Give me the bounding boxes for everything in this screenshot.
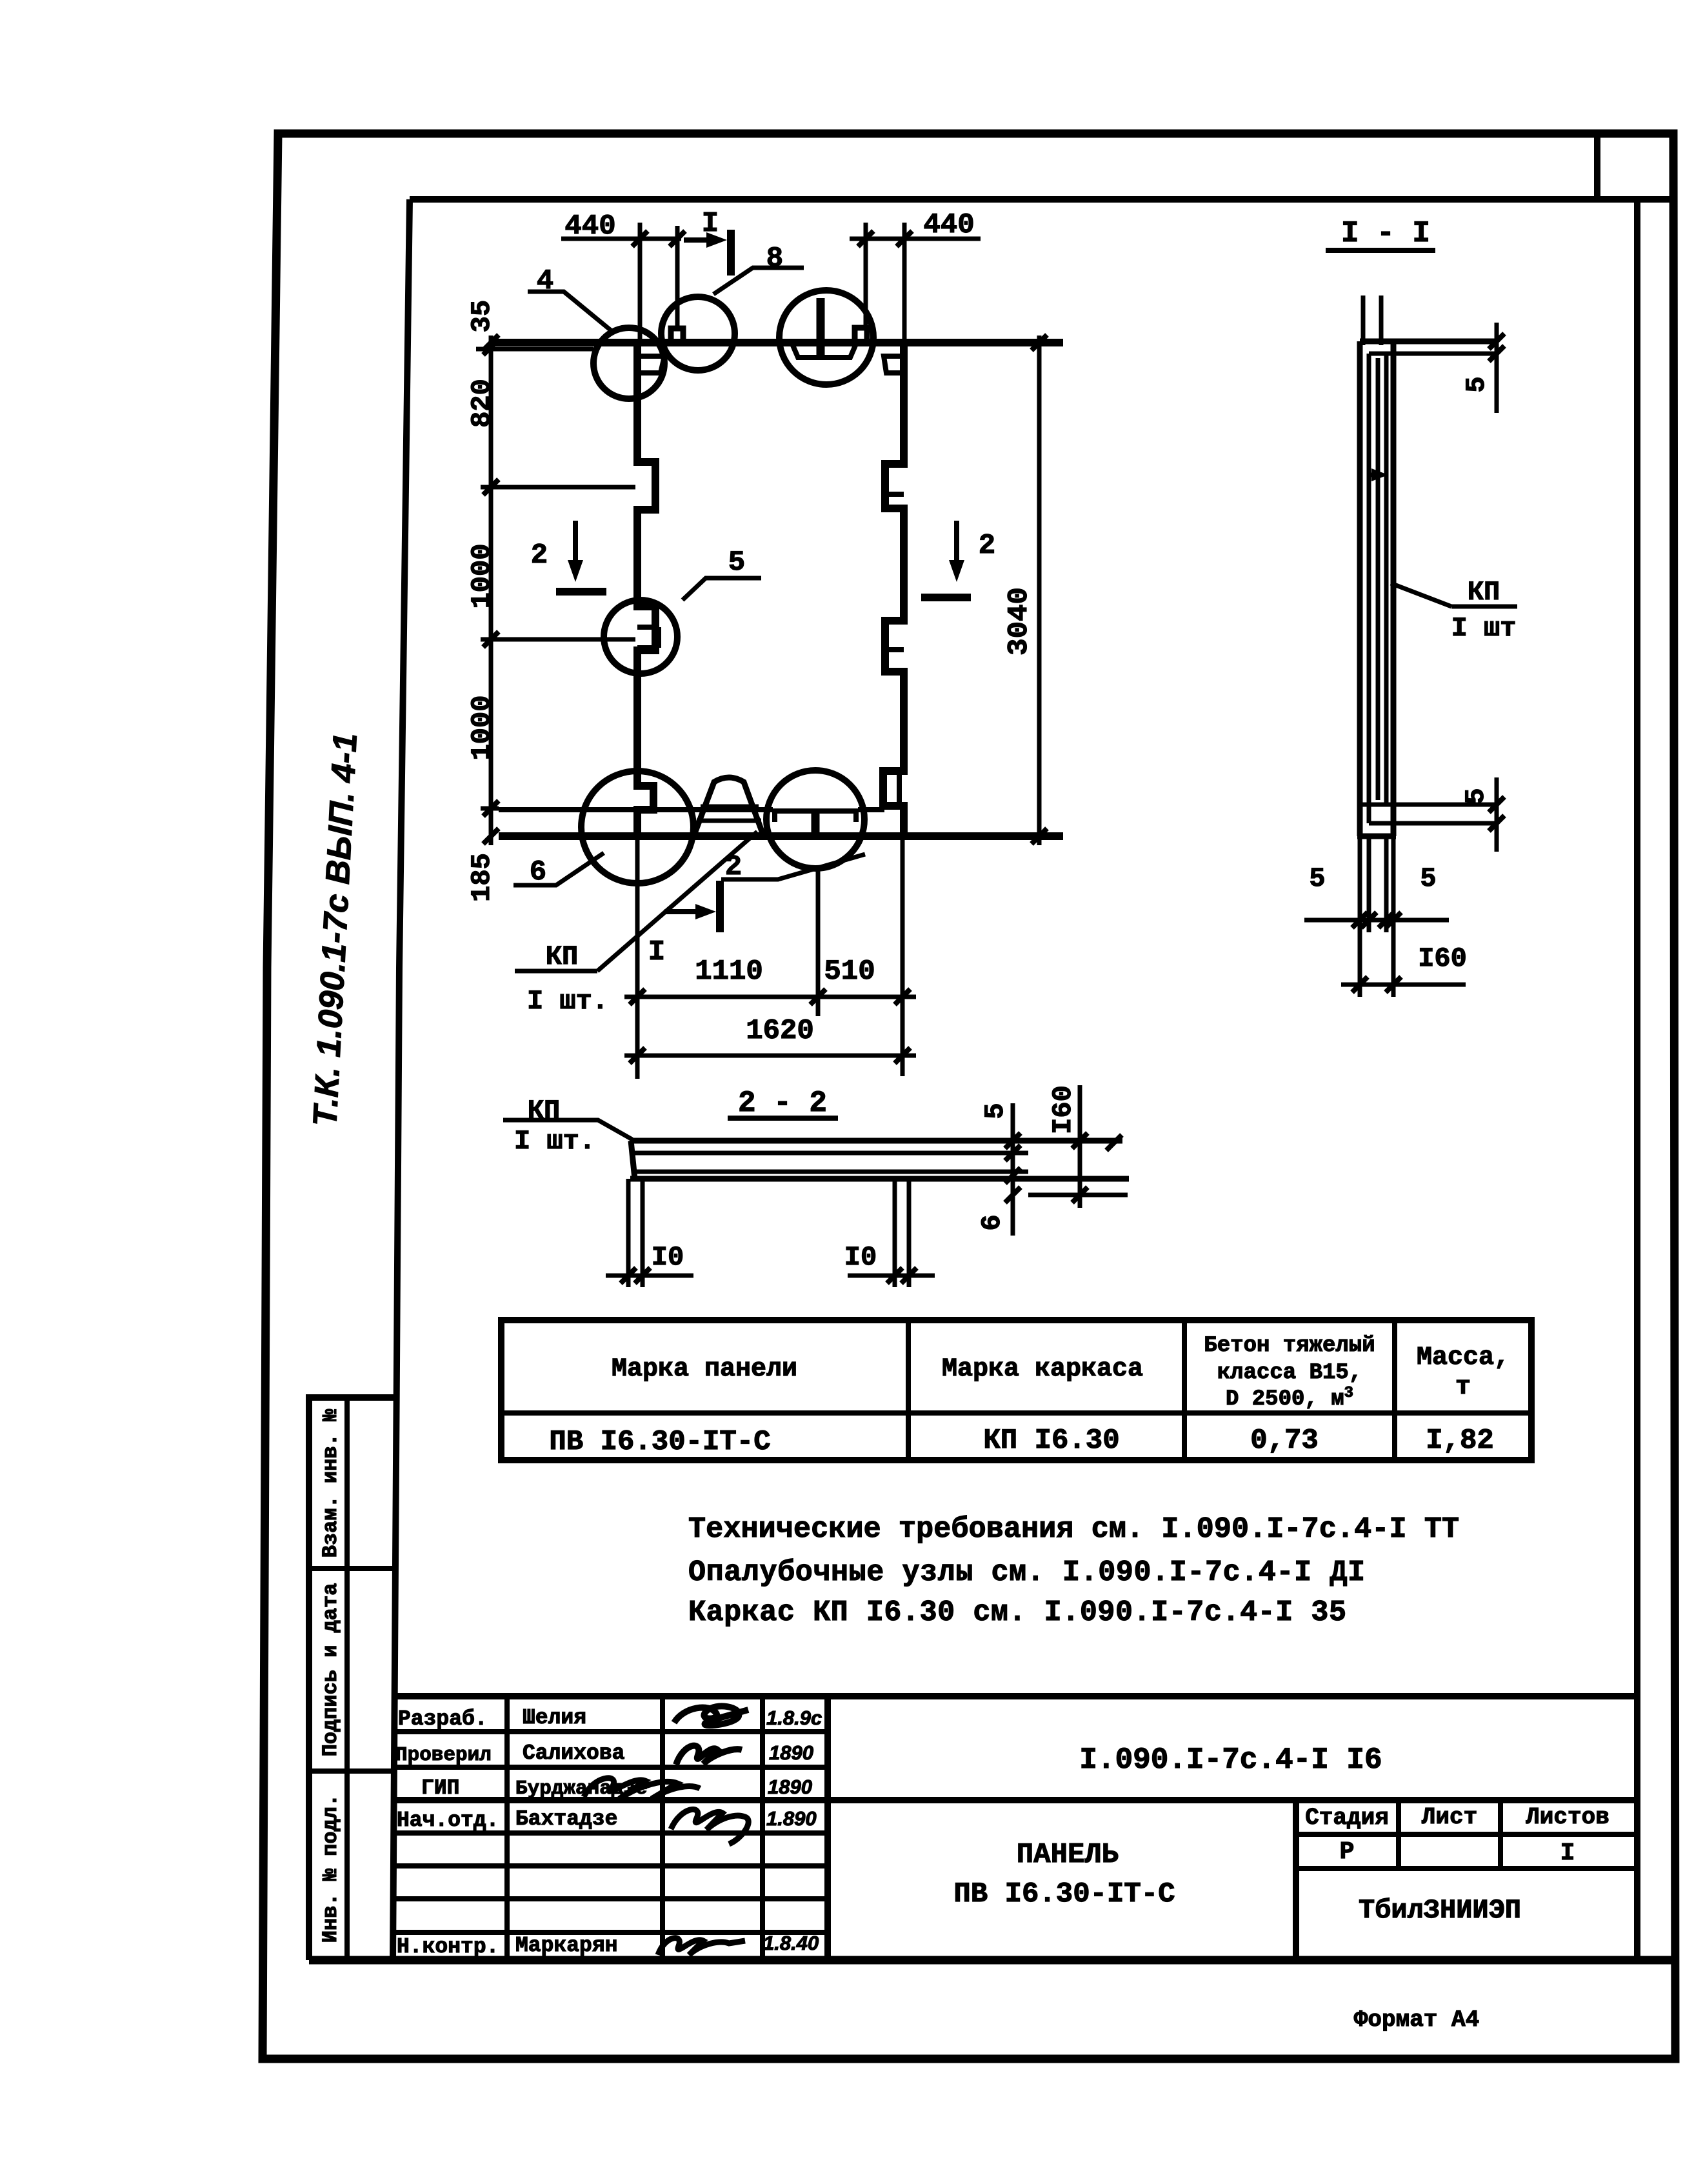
table header divider: [501, 1410, 1531, 1416]
svg-text:5: 5: [1461, 376, 1492, 392]
dim 1620 ticks: [630, 1048, 910, 1063]
left dim extension 820: [481, 485, 635, 490]
signature row 4: [671, 1809, 748, 1844]
svg-text:Лист: Лист: [1422, 1804, 1477, 1830]
svg-text:5: 5: [1460, 788, 1491, 804]
svg-text:I шт: I шт: [1451, 613, 1517, 644]
svg-text:I60: I60: [1048, 1085, 1079, 1134]
svg-text:I,82: I,82: [1426, 1425, 1494, 1457]
label 5 leader: [683, 578, 761, 600]
inner drawing frame top: [410, 196, 1673, 203]
svg-text:Листов: Листов: [1526, 1804, 1609, 1830]
svg-text:Нач.отд.: Нач.отд.: [397, 1808, 499, 1832]
KP bench 2-2: [503, 1120, 632, 1139]
right bottom notch divider: [897, 771, 902, 806]
title row line 5: [395, 1863, 828, 1868]
title block bottom / frame bottom: [309, 1956, 1675, 1965]
bottom ext verticals I-I: [1360, 836, 1393, 997]
right leg dim line: [848, 1274, 935, 1278]
svg-text:I: I: [702, 208, 719, 240]
section bottom inner line: [1360, 803, 1497, 807]
svg-text:510: 510: [824, 956, 875, 988]
detail circle top right: [779, 290, 873, 385]
section bottom line: [1357, 834, 1396, 839]
bottom ext line mid: [816, 868, 821, 1016]
svg-text:Т.К. 1.090.1-7с ВЫП. 4-1: Т.К. 1.090.1-7с ВЫП. 4-1: [306, 732, 364, 1127]
right top corner rebate: [884, 356, 904, 373]
svg-text:Маркарян: Маркарян: [515, 1934, 617, 1958]
loop right of big circle: [855, 328, 867, 343]
boss inner lines: [697, 806, 761, 821]
KP underline: [515, 969, 597, 974]
section 2 marker right arrow: [954, 521, 959, 571]
bottom T-slot end tabs: [775, 811, 856, 822]
section inner left: [1367, 354, 1371, 823]
title col 1: [504, 1696, 510, 1960]
left dim extension 1000: [481, 637, 635, 642]
svg-text:I0: I0: [844, 1242, 877, 1273]
svg-text:820: 820: [466, 379, 497, 428]
left strip box: [309, 1398, 394, 1960]
svg-text:ТбилЗНИИЭП: ТбилЗНИИЭП: [1359, 1895, 1521, 1926]
svg-text:ПВ I6.30-IТ-С: ПВ I6.30-IТ-С: [953, 1878, 1175, 1910]
svg-text:Стадия: Стадия: [1305, 1805, 1389, 1831]
svg-text:2: 2: [979, 530, 995, 562]
title row line 1: [395, 1729, 828, 1734]
KP leader: [597, 832, 757, 971]
dim 160 ticks I-I: [1352, 977, 1401, 992]
svg-text:5: 5: [1420, 863, 1436, 894]
dim 5-5 line I-I: [1304, 918, 1449, 923]
KP leader I-I: [1391, 583, 1451, 606]
table column 1: [906, 1320, 911, 1460]
svg-text:5: 5: [1309, 863, 1325, 894]
dim 440 left ticks: [632, 231, 685, 246]
signature row 1: [674, 1706, 748, 1725]
top-right corner cell divider: [1594, 134, 1600, 199]
dim 1110-510 ticks: [630, 989, 910, 1005]
dim 160 vertical line 2-2: [1078, 1085, 1082, 1208]
section bottom inner line 2: [1369, 821, 1497, 826]
detail circle 2: [766, 770, 864, 868]
table column 2: [1182, 1320, 1187, 1460]
svg-text:Технические требования см. I.0: Технические требования см. I.090.I-7с.4-…: [688, 1513, 1459, 1546]
label 2 leader: [721, 854, 865, 879]
left strip divider 2: [309, 1768, 394, 1774]
svg-text:5: 5: [980, 1103, 1011, 1119]
title center divider: [1293, 1800, 1299, 1960]
svg-text:I шт.: I шт.: [514, 1126, 595, 1157]
cage arrow: [1370, 473, 1380, 477]
section inner right: [1384, 354, 1389, 805]
dim 5 top line I-I: [1495, 323, 1499, 413]
title col 3: [760, 1696, 765, 1960]
svg-text:1620: 1620: [746, 1015, 814, 1047]
ext line 160 bottom 2-2: [1028, 1193, 1128, 1197]
signature row 3: [584, 1778, 700, 1799]
svg-text:440: 440: [923, 209, 974, 241]
slab left end: [631, 1141, 635, 1179]
dim 440 left ext 2: [675, 226, 680, 328]
dim 1620 line: [624, 1054, 916, 1058]
slab line 2: [634, 1151, 1028, 1156]
section I marker bottom bar: [716, 881, 724, 932]
dim 440 left ext: [638, 223, 643, 343]
detail circle 5: [604, 600, 677, 674]
dim 440 right line: [850, 237, 981, 241]
svg-text:6: 6: [977, 1214, 1008, 1230]
svg-text:I: I: [648, 936, 665, 968]
svg-text:Н.контр.: Н.контр.: [397, 1935, 499, 1959]
left leg ticks: [621, 1268, 650, 1283]
section cage line: [1376, 358, 1380, 800]
stadia values underline: [1296, 1866, 1637, 1871]
section I marker top bar: [727, 230, 735, 276]
svg-text:Разраб.: Разраб.: [398, 1707, 488, 1731]
bottom ext line left: [635, 836, 640, 1079]
left dim chain line: [489, 336, 493, 845]
svg-text:Проверил: Проверил: [395, 1744, 492, 1767]
bottom T-slot stem: [812, 811, 820, 835]
section I marker top arrow: [684, 237, 717, 243]
svg-text:1000: 1000: [466, 696, 497, 761]
section I marker bottom arrow: [664, 909, 706, 914]
right leg: [895, 1179, 909, 1287]
left dim extension 185: [481, 806, 499, 811]
svg-text:класса В15,: класса В15,: [1217, 1361, 1362, 1385]
section I-I underline: [1326, 248, 1435, 253]
dim 3040 ticks: [1031, 335, 1047, 844]
left edge protrusion lines in detail 5: [637, 627, 659, 648]
table outer box: [501, 1320, 1531, 1460]
panel right edge with notches: [883, 343, 904, 836]
section top line: [1360, 339, 1497, 345]
dim 5 top ticks: [1489, 334, 1504, 361]
svg-text:Бахтадзе: Бахтадзе: [515, 1807, 617, 1831]
right edge notch tab 2: [885, 647, 904, 652]
stadia col divider 1: [1396, 1800, 1401, 1868]
top anchor stem: [817, 298, 825, 356]
dim 3040 line: [1037, 336, 1042, 845]
panel inner bottom line left part: [499, 807, 773, 812]
svg-text:1.890: 1.890: [766, 1807, 817, 1830]
label 4 leader: [528, 292, 611, 330]
svg-text:ПАНЕЛЬ: ПАНЕЛЬ: [1017, 1839, 1119, 1871]
svg-text:Формат А4: Формат А4: [1354, 2007, 1479, 2033]
svg-text:Марка панели: Марка панели: [612, 1355, 797, 1384]
section outer left: [1357, 341, 1363, 836]
svg-text:Масса,: Масса,: [1417, 1343, 1510, 1372]
svg-text:Р: Р: [1340, 1838, 1355, 1866]
signature row 2: [676, 1746, 742, 1765]
section outer right: [1391, 341, 1397, 836]
label 6 leader: [513, 853, 604, 885]
title row line 2: [395, 1765, 828, 1770]
inner drawing frame left: [393, 199, 410, 1960]
svg-text:I60: I60: [1418, 943, 1467, 974]
inner drawing frame right: [1634, 199, 1640, 1960]
svg-text:2 - 2: 2 - 2: [738, 1087, 827, 1120]
svg-text:Инв. № подл.: Инв. № подл.: [319, 1794, 343, 1943]
stadia col divider 2: [1498, 1800, 1503, 1868]
stadia header underline: [1296, 1832, 1637, 1837]
title block top line: [395, 1693, 1637, 1699]
dim 1110-510 line: [624, 995, 916, 999]
top slot profile: [792, 344, 856, 357]
label 8 leader: [713, 268, 804, 294]
title row line 6: [395, 1896, 828, 1901]
svg-text:185: 185: [466, 853, 497, 902]
dim 440 right ext: [864, 223, 868, 326]
dim 5 bottom line I-I: [1495, 777, 1499, 852]
slab bottom line: [630, 1176, 1129, 1182]
signature row 8: [658, 1938, 745, 1955]
dim 5-6 ticks: [1005, 1133, 1021, 1203]
page outer border: [263, 134, 1675, 2059]
dim 160 line I-I: [1341, 983, 1466, 987]
section 2 marker left arrow: [573, 521, 578, 571]
left leg dim line: [606, 1274, 693, 1278]
svg-text:440: 440: [564, 210, 615, 243]
section 2 marker left bar: [556, 588, 606, 596]
svg-text:1890: 1890: [768, 1776, 812, 1798]
svg-text:3040: 3040: [1003, 587, 1035, 656]
detail circle 8: [661, 297, 735, 370]
bottom T-slot horizontal: [773, 808, 858, 814]
svg-text:I шт.: I шт.: [527, 986, 608, 1017]
slab line 3: [634, 1170, 1028, 1174]
left strip divider 1: [309, 1566, 394, 1571]
svg-text:1000: 1000: [466, 544, 497, 609]
table column 3: [1392, 1320, 1397, 1460]
svg-text:Подпись и дата: Подпись и дата: [319, 1583, 343, 1757]
top rebar sticks: [1363, 296, 1381, 345]
bottom ext line right: [901, 836, 905, 1076]
svg-text:КП I6.30: КП I6.30: [983, 1425, 1119, 1457]
section 2 marker right bar: [921, 594, 971, 601]
title col 4: [824, 1696, 831, 1960]
svg-text:2: 2: [531, 539, 548, 572]
svg-text:КП: КП: [1468, 577, 1500, 608]
svg-text:т: т: [1455, 1373, 1471, 1402]
title col 2: [660, 1696, 665, 1960]
svg-text:1110: 1110: [695, 956, 763, 988]
dim 440 right ext 2: [902, 223, 907, 343]
svg-text:ГИП: ГИП: [421, 1776, 459, 1800]
detail circle 4: [593, 328, 664, 399]
svg-text:1.8.9с: 1.8.9с: [766, 1707, 822, 1729]
section top inner line: [1369, 352, 1497, 356]
bottom boss trapezoid: [694, 777, 763, 835]
svg-text:1890: 1890: [769, 1741, 813, 1764]
svg-text:ПВ I6.30-IТ-С: ПВ I6.30-IТ-С: [549, 1426, 770, 1458]
svg-text:Каркас КП I6.30 см. I.090.I-7с: Каркас КП I6.30 см. I.090.I-7с.4-I 35: [688, 1596, 1346, 1629]
svg-text:Марка каркаса: Марка каркаса: [942, 1355, 1143, 1384]
right edge notch tab 1: [885, 492, 904, 497]
svg-text:1.8.40: 1.8.40: [763, 1932, 819, 1954]
slab top line: [630, 1138, 1122, 1144]
svg-text:I0: I0: [652, 1242, 684, 1273]
svg-text:0,73: 0,73: [1250, 1425, 1319, 1457]
dim 440 right ticks: [858, 231, 912, 246]
dim 5 bottom ticks: [1489, 797, 1504, 831]
svg-text:I: I: [1560, 1839, 1575, 1867]
dim 5-6 vertical line 2-2: [1011, 1103, 1015, 1236]
svg-text:Опалубочные узлы см. I.090.I-7: Опалубочные узлы см. I.090.I-7с.4-I ДI: [688, 1556, 1365, 1589]
panel left edge with notches: [637, 343, 655, 836]
left chain ticks: [483, 335, 499, 844]
dim 160 ticks 2-2: [1072, 1133, 1122, 1203]
panel top edge: [492, 339, 1063, 346]
svg-text:Шелия: Шелия: [523, 1706, 586, 1730]
right leg ticks: [887, 1268, 917, 1283]
svg-text:I.090.I-7с.4-I I6: I.090.I-7с.4-I I6: [1079, 1743, 1382, 1777]
svg-text:КП: КП: [546, 941, 578, 972]
svg-text:Салихова: Салихова: [523, 1741, 624, 1765]
loop detail 8: [671, 328, 683, 343]
left leg: [628, 1179, 643, 1287]
left strip divider vertical: [344, 1398, 350, 1960]
detail circle 6: [581, 771, 693, 883]
title row line 3 / big cell bottom: [395, 1797, 1637, 1803]
title row line 4: [395, 1830, 828, 1836]
svg-text:D 2500, м3: D 2500, м3: [1226, 1385, 1353, 1412]
panel bottom edge: [499, 832, 1063, 840]
left dim extension 35: [476, 347, 593, 352]
panel inner bottom line right part: [858, 807, 884, 812]
left top corner rebate: [637, 356, 664, 373]
svg-text:5: 5: [728, 546, 745, 579]
KP underline I-I: [1451, 605, 1517, 609]
svg-text:35: 35: [466, 300, 497, 332]
title row line 7: [395, 1930, 828, 1935]
svg-text:Взам. инв. №: Взам. инв. №: [319, 1408, 343, 1558]
section 2-2 title underline: [728, 1116, 838, 1121]
dim 5-5 ticks: [1352, 912, 1401, 928]
svg-text:Бетон тяжелый: Бетон тяжелый: [1204, 1334, 1375, 1358]
dim 440 left line: [561, 237, 681, 241]
circle 6 inner step: [637, 783, 653, 788]
svg-text:I - I: I - I: [1341, 217, 1430, 250]
